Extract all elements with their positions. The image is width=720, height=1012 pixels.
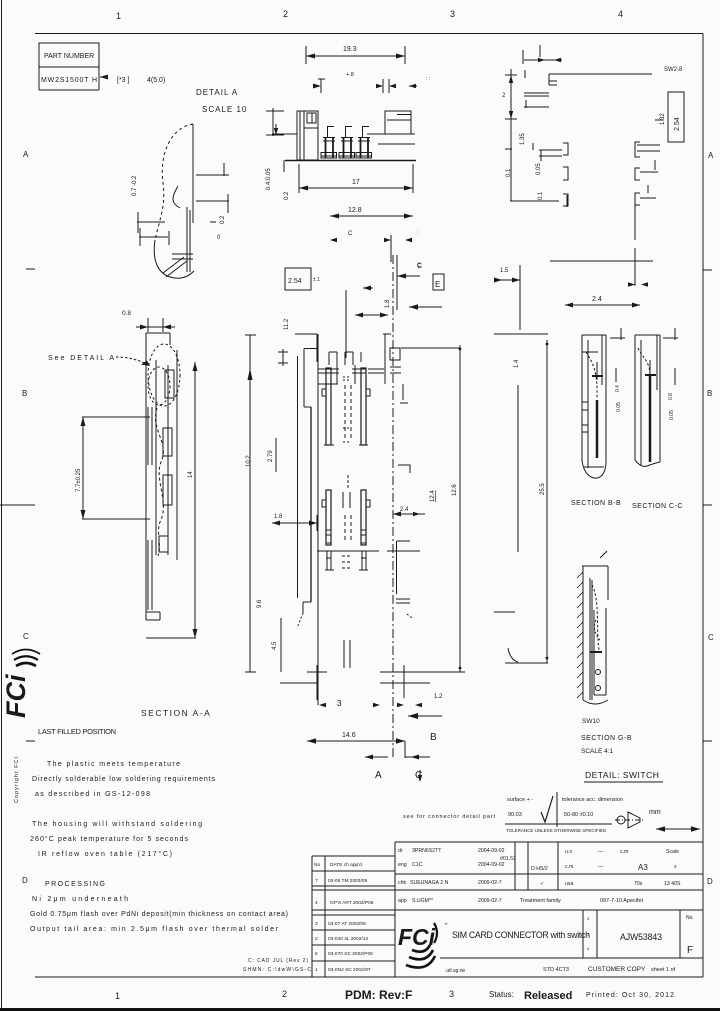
svg-text:u.s: u.s [565,849,572,855]
svg-text:SCALE 10: SCALE 10 [202,105,247,114]
svg-text:D: D [707,877,713,886]
svg-text:2: 2 [282,989,287,999]
svg-text:0.1: 0.1 [506,168,512,177]
svg-text:03-040 4L 2002/13: 03-040 4L 2002/13 [328,936,368,942]
svg-text:: :: : : [426,76,430,82]
svg-text:SHMN: C:\dwW\GS-C: SHMN: C:\dwW\GS-C [243,967,311,973]
svg-text:No: No [314,862,320,868]
svg-text:2: 2 [315,936,318,942]
svg-text:260°C peak temperature for 5 s: 260°C peak temperature for 5 seconds [30,835,188,843]
svg-text:DATE ch app'd: DATE ch app'd [330,862,362,868]
svg-text:2: 2 [283,9,288,19]
svg-text:[*3 ]: [*3 ] [117,77,130,84]
svg-text:C: C [23,632,29,641]
svg-text:12.6: 12.6 [452,484,458,496]
svg-text:The plastic meets temperature: The plastic meets temperature [47,761,180,768]
svg-text:SECTION B-B: SECTION B-B [571,500,621,507]
svg-text:2004-09-02: 2004-09-02 [478,848,505,854]
svg-text:A: A [708,151,714,160]
svg-text:AJW53843: AJW53843 [620,932,662,942]
svg-text:Treatment family: Treatment family [520,898,561,904]
svg-text:4: 4 [315,900,318,906]
svg-text:2.4: 2.4 [592,296,602,303]
svg-text:SIM CARD CONNECTOR with switch: SIM CARD CONNECTOR with switch [452,930,590,940]
svg-text:50-80 ±0.10: 50-80 ±0.10 [564,812,593,818]
svg-text:1.35: 1.35 [520,133,526,145]
svg-text:A: A [23,150,29,159]
svg-text:tolerance acc. dimension: tolerance acc. dimension [562,797,623,803]
svg-text:SECTION C-C: SECTION C-C [632,503,683,510]
svg-text:1.8: 1.8 [274,514,283,520]
svg-text:Scale: Scale [666,849,679,855]
svg-text:SW10: SW10 [582,718,600,725]
svg-text:MW2S1500T H: MW2S1500T H [41,77,97,84]
svg-text:14.6: 14.6 [342,732,356,739]
svg-text:STD 4CT3: STD 4CT3 [543,967,569,973]
svg-text:SECTION G-B: SECTION G-B [581,735,632,742]
svg-text:12.8: 12.8 [348,207,362,214]
svg-text:1: 1 [315,967,318,973]
svg-text:CUSTOMER COPY: CUSTOMER COPY [588,966,646,973]
svg-text:B: B [707,389,712,398]
svg-text:No.: No. [686,915,694,921]
svg-text:1: 1 [116,11,121,21]
svg-text:DETAIL A: DETAIL A [196,88,238,97]
svg-text:10.2: 10.2 [246,455,252,467]
svg-text:see for connector detail part: see for connector detail part [403,814,495,820]
svg-text:S.UGM**: S.UGM** [412,898,433,904]
svg-text:Status:: Status: [489,990,514,999]
svg-text:11.2: 11.2 [284,318,290,330]
svg-text:3: 3 [450,9,455,19]
svg-text:A3: A3 [638,863,648,872]
svg-text:2009-02-7: 2009-02-7 [478,880,502,886]
svg-text:PDM: Rev:F: PDM: Rev:F [345,988,412,1002]
svg-text:Ni 2μm underneath: Ni 2μm underneath [32,896,128,903]
svg-text:E: E [435,280,440,289]
svg-text:1.4: 1.4 [514,359,520,368]
svg-text:5: 5 [315,951,318,957]
svg-text:3: 3 [337,699,342,708]
svg-text:#01.53: #01.53 [500,856,516,862]
svg-text:PROCESSING: PROCESSING [45,881,105,888]
svg-text:03-070 SC 2002/P06: 03-070 SC 2002/P06 [328,951,373,957]
svg-text:FCi: FCi [1,674,31,718]
svg-text:C: CAD JUL (Rev 2): C: CAD JUL (Rev 2) [248,958,308,964]
svg-text:GP'S ART 2002/P06: GP'S ART 2002/P06 [330,900,374,906]
svg-text:dr: dr [398,848,403,854]
svg-text:0.8: 0.8 [122,310,131,317]
svg-text:B: B [22,389,27,398]
svg-text:F: F [687,945,693,956]
svg-text:4.5: 4.5 [272,641,278,650]
svg-text:A: A [375,770,382,781]
svg-text:0.05: 0.05 [616,402,622,412]
svg-text:eng: eng [398,862,407,868]
svg-text:c.m: c.m [620,849,628,855]
svg-text:3PRN6S2TT: 3PRN6S2TT [412,848,442,854]
svg-text:03-05 TM 2003/09: 03-05 TM 2003/09 [328,878,367,884]
svg-text:70s: 70s [634,881,643,887]
svg-text:B: B [430,732,437,743]
svg-text:SCALE 4:1: SCALE 4:1 [581,748,614,755]
svg-text:C1C: C1C [412,862,423,868]
svg-text:0.4: 0.4 [615,385,621,392]
svg-text:0.2: 0.2 [220,215,226,224]
svg-text:0.8: 0.8 [668,393,674,400]
svg-text:7: 7 [315,878,318,884]
svg-text:SECTION A-A: SECTION A-A [141,708,211,718]
svg-text:3: 3 [449,989,454,999]
svg-text:chk: chk [398,880,406,886]
svg-text:0.4:0.05: 0.4:0.05 [266,168,272,190]
svg-text:0.05: 0.05 [669,410,675,420]
svg-text:2.54: 2.54 [674,117,681,131]
svg-text:9.6: 9.6 [257,599,263,608]
svg-text:c.m: c.m [565,864,573,870]
svg-text:±.1: ±.1 [313,277,320,283]
svg-text:3: 3 [315,921,318,927]
svg-text:0.7 -0.2: 0.7 -0.2 [132,175,138,196]
svg-text:2009-02-7: 2009-02-7 [478,898,502,904]
svg-text:C: C [417,263,422,270]
svg-text:4(5.0): 4(5.0) [147,77,165,84]
svg-text:—: — [598,864,604,870]
svg-text:17: 17 [352,179,360,186]
svg-text:.utl.sg.rw: .utl.sg.rw [445,968,465,974]
svg-text:app: app [398,898,407,904]
svg-text:0.05: 0.05 [536,163,542,175]
svg-text:25.5: 25.5 [540,483,546,495]
svg-text:2.4: 2.4 [400,507,409,513]
svg-text:Copyright FCI.: Copyright FCI. [14,754,20,803]
svg-text:14: 14 [188,471,194,478]
svg-text:x: x [674,864,677,870]
svg-text:Released: Released [524,990,572,1002]
svg-text:7.7±0.25: 7.7±0.25 [76,468,82,492]
svg-text:sheet 1 of: sheet 1 of [651,967,676,973]
svg-text:1.32: 1.32 [660,113,666,125]
svg-text:03-07 AT 2002/09: 03-07 AT 2002/09 [328,921,366,927]
svg-text:usa: usa [565,881,573,887]
svg-text:0.2: 0.2 [284,191,290,200]
svg-text:Directly solderable low solder: Directly solderable low soldering requir… [32,776,216,783]
svg-text:13 40S: 13 40S [664,881,681,887]
svg-text:surface + -: surface + - [507,797,533,803]
svg-text:C: C [348,231,353,237]
svg-text:The housing will withstand sol: The housing will withstand soldering [32,821,202,828]
svg-text:2004-09-02: 2004-09-02 [478,862,505,868]
svg-text:SW2-8: SW2-8 [664,67,683,73]
svg-text:Gold 0.75μm flash over PdNi de: Gold 0.75μm flash over PdNi deposit(min … [30,911,288,918]
svg-text:SUEUNAGA 2 N: SUEUNAGA 2 N [410,880,449,886]
svg-text:1: 1 [115,991,120,1001]
svg-text:mm: mm [649,809,661,816]
svg-text:19.3: 19.3 [343,46,357,53]
svg-text:DETAIL: SWITCH: DETAIL: SWITCH [585,770,659,780]
svg-text:4: 4 [618,9,623,19]
svg-text:TOLERANCE UNLESS OTHERWISE SPE: TOLERANCE UNLESS OTHERWISE SPECIFIED [506,828,607,833]
svg-text:—: — [598,849,604,855]
svg-text:D HS/2: D HS/2 [531,866,548,872]
svg-text:LAST FILLED POSITION: LAST FILLED POSITION [38,727,116,736]
svg-text:+.8: +.8 [346,72,354,78]
svg-text:Output tail area: min 2.5μm fl: Output tail area: min 2.5μm flash over t… [30,926,279,933]
svg-text:1.5: 1.5 [500,268,509,274]
svg-text:1.2: 1.2 [434,694,443,700]
svg-text:2.54: 2.54 [288,278,302,285]
svg-text:Printed: Oct 30, 2012: Printed: Oct 30, 2012 [586,992,674,999]
svg-text:C: C [708,633,714,642]
svg-text:12.4: 12.4 [430,490,436,502]
svg-text:0.1: 0.1 [538,191,544,200]
svg-text:097-7-10 Apecifet: 097-7-10 Apecifet [600,898,644,904]
svg-text:PART NUMBER: PART NUMBER [44,53,94,60]
svg-text:1.8: 1.8 [385,299,391,308]
svg-text:03-0N2 SC 2002/9T: 03-0N2 SC 2002/9T [328,967,371,973]
svg-text:2.79: 2.79 [268,450,274,462]
svg-text:✓: ✓ [540,881,544,887]
svg-text:90.03: 90.03 [508,812,522,818]
svg-text:D: D [22,876,28,885]
